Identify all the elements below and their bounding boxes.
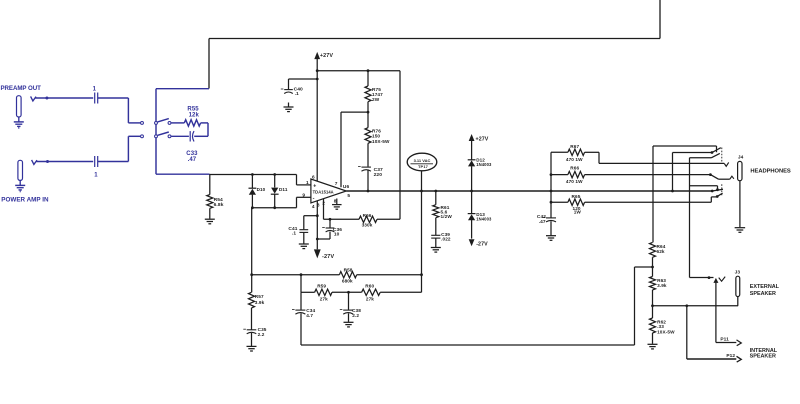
- label 3.9k (R63): [657, 283, 667, 288]
- wire C40 branch: [289, 79, 318, 89]
- svg-text:SPEAKER: SPEAKER: [750, 354, 776, 360]
- label -27V (left): [322, 254, 334, 260]
- ground under C42: [546, 221, 556, 240]
- label -27V (mid): [476, 242, 488, 248]
- wire C36 bottom to -27V rail: [317, 238, 330, 240]
- connector J1 preamp out jack: [17, 96, 22, 117]
- label D10: [257, 187, 266, 192]
- label POWER AMP IN: [1, 197, 49, 204]
- label pin 8: [334, 198, 337, 204]
- resistor R57: [249, 208, 255, 330]
- diode D10: [249, 175, 257, 208]
- svg-text:2W: 2W: [372, 97, 380, 102]
- svg-text:1N4003: 1N4003: [476, 162, 492, 167]
- node main line contact: [711, 190, 714, 193]
- wire R65 line: [551, 201, 711, 203]
- wire feedback branch left: [301, 267, 653, 345]
- svg-text:1: 1: [306, 180, 309, 186]
- node zobel R65 junction: [550, 201, 553, 204]
- switch arm 3: [712, 189, 723, 191]
- node R58 R59 junction: [300, 273, 303, 276]
- svg-text:6.8k: 6.8k: [214, 202, 224, 208]
- label TDA1514A: [313, 189, 334, 194]
- label J3: [735, 270, 741, 276]
- wire R58 line: [252, 274, 422, 276]
- svg-text:R58: R58: [344, 267, 353, 272]
- P12 arrow: [737, 356, 742, 362]
- power +27V arrow (left): [314, 52, 320, 182]
- label 10X-5W: [372, 139, 390, 144]
- ground under C39: [431, 238, 441, 252]
- wire lower input line: [251, 206, 297, 209]
- label pin 3: [317, 202, 320, 208]
- svg-text:10: 10: [334, 232, 340, 238]
- switch S2 arm: [158, 132, 169, 135]
- wire top feed from off-page: [209, 0, 660, 89]
- svg-text:P12: P12: [726, 353, 735, 359]
- power -27V arrow (left): [314, 249, 321, 258]
- jack link dashes lower: [721, 184, 723, 196]
- node zobel R66b junction: [550, 173, 553, 176]
- label 62k: [657, 249, 665, 254]
- label 6.8k: [214, 202, 224, 208]
- svg-text:R65: R65: [572, 194, 581, 199]
- node C36 junction: [329, 218, 332, 221]
- wire zobel vertical: [550, 152, 552, 217]
- wire feedback vertical: [421, 191, 423, 292]
- label D13: [476, 212, 485, 217]
- label C38: [352, 308, 361, 313]
- label C33: [186, 151, 198, 157]
- label P11: [720, 336, 729, 342]
- svg-text:3.11 VAC: 3.11 VAC: [414, 158, 431, 163]
- svg-text:R63: R63: [657, 278, 666, 283]
- svg-text:EXTERNAL: EXTERNAL: [750, 284, 780, 290]
- capacitor C41: [299, 230, 308, 233]
- wire P11 line: [716, 342, 736, 344]
- node rail junction C40 branch: [316, 78, 319, 81]
- resistor R60: [362, 289, 381, 295]
- node R59 C38 junction: [347, 291, 350, 294]
- power -27V arrow (mid): [469, 239, 475, 246]
- wire R66b line: [551, 174, 710, 176]
- label C34: [306, 308, 315, 313]
- label R66 (470): [570, 165, 579, 170]
- wire P12 line: [687, 306, 737, 359]
- svg-text:U6: U6: [343, 184, 350, 190]
- label 680k: [342, 279, 353, 284]
- ring arm J4: [710, 175, 718, 180]
- svg-text:.1: .1: [295, 91, 299, 97]
- label 4.7 (C34): [306, 313, 313, 318]
- resistor R63: [650, 267, 656, 306]
- resistor R65: [568, 199, 585, 205]
- wire J3 sleeve down: [737, 297, 739, 306]
- label 1W (R65): [574, 210, 582, 215]
- wire R64 top line: [653, 146, 717, 152]
- ground under J4: [735, 228, 746, 233]
- svg-text:9: 9: [302, 193, 305, 199]
- label P12: [726, 353, 735, 359]
- svg-text:680k: 680k: [342, 279, 353, 284]
- test point TP17 oval: [407, 153, 437, 191]
- svg-text:.33: .33: [657, 324, 664, 329]
- node tip contact dot 2: [46, 160, 49, 163]
- connector J4 headphone jack: [738, 161, 742, 180]
- capacitor C40: [281, 89, 293, 94]
- op-amp U6 TDA1514A triangle: [311, 179, 346, 203]
- resistor R59: [315, 289, 332, 295]
- label pin 6: [312, 174, 315, 180]
- wire blue box bottom edge: [156, 173, 210, 175]
- label R64: [657, 244, 666, 249]
- node output jack junction: [671, 190, 674, 193]
- label 1N4003 (D12): [476, 162, 492, 167]
- node tip contact dot: [45, 97, 48, 100]
- svg-text:.47: .47: [539, 219, 546, 225]
- label .1 (C40): [295, 91, 299, 97]
- label R76: [372, 129, 381, 134]
- label R63: [657, 278, 666, 283]
- label 5.6: [441, 210, 448, 215]
- svg-text:R59: R59: [317, 283, 326, 288]
- svg-text:+: +: [313, 184, 316, 190]
- label C39: [441, 232, 450, 237]
- svg-text:.47: .47: [188, 157, 197, 163]
- node output D12 junction: [470, 190, 473, 193]
- wire C30 to switch S1: [98, 98, 141, 123]
- label 3.11 VAC: [411, 158, 434, 164]
- svg-text:+27V: +27V: [476, 137, 489, 143]
- node lower contact b: [716, 188, 719, 191]
- svg-text:5: 5: [347, 193, 350, 199]
- svg-text:1: 1: [93, 86, 97, 92]
- svg-text:2.2: 2.2: [258, 332, 265, 337]
- ext speaker chevron: [719, 277, 726, 282]
- label pin 1: [306, 180, 309, 186]
- svg-text:D11: D11: [279, 187, 288, 192]
- resistor R76: [365, 112, 371, 166]
- svg-text:R66: R66: [570, 165, 579, 170]
- wire to pin 1: [297, 175, 312, 185]
- svg-text:D10: D10: [257, 187, 266, 192]
- label R62: [657, 319, 666, 324]
- label pin 5: [347, 193, 350, 199]
- switch S1 upper contacts: [141, 121, 171, 124]
- wire jack switch feed: [673, 153, 713, 192]
- wire switch S2 to C33: [171, 135, 189, 137]
- label 27k (R60): [366, 296, 374, 301]
- wire speaker feed lower: [690, 186, 718, 190]
- wire switch S1 to R55: [171, 122, 184, 124]
- label minus input: [313, 195, 315, 201]
- svg-text:TP17: TP17: [418, 164, 429, 169]
- label C37: [374, 167, 383, 173]
- tip chevron J4: [724, 162, 728, 166]
- wire preamp out to C30: [36, 97, 94, 99]
- switch arm 4: [717, 193, 722, 196]
- diode D13: [468, 191, 476, 239]
- ring chevron J4: [719, 176, 734, 179]
- svg-text:3.9k: 3.9k: [255, 300, 265, 305]
- label C36: [333, 227, 342, 233]
- node pin4 C36 junction: [316, 238, 319, 241]
- label .47: [188, 157, 197, 163]
- svg-text:27k: 27k: [366, 296, 374, 301]
- svg-text:3.9k: 3.9k: [657, 283, 667, 288]
- svg-text:220: 220: [374, 172, 383, 178]
- svg-text:27k: 27k: [320, 296, 328, 301]
- switch S2 lower contacts: [141, 135, 171, 138]
- svg-text:1W: 1W: [574, 210, 582, 215]
- label 1/2W: [441, 214, 453, 219]
- ground under C38: [344, 322, 354, 327]
- label TP17: [418, 164, 429, 169]
- label R75: [372, 87, 381, 92]
- wire R55 to right junction: [201, 123, 208, 136]
- svg-text:SPEAKER: SPEAKER: [750, 291, 776, 297]
- wire J4 sleeve to ground: [739, 181, 741, 227]
- resistor R54: [207, 175, 213, 219]
- P11 arrow: [737, 340, 742, 346]
- node R65 contact: [716, 195, 719, 198]
- ground under C40: [284, 103, 294, 112]
- resistor R64: [650, 146, 656, 267]
- svg-text:HEADPHONES: HEADPHONES: [750, 168, 791, 174]
- label 3.9k (R57): [255, 300, 265, 305]
- switch arm 1: [712, 148, 721, 153]
- label 2.2 (C35): [258, 332, 265, 337]
- capacitor C34: [292, 292, 305, 345]
- wire R59 R60 line: [301, 275, 422, 293]
- resistor R58: [339, 272, 356, 278]
- svg-text:6: 6: [312, 174, 315, 180]
- svg-text:4.7: 4.7: [306, 313, 313, 318]
- label J4: [738, 155, 744, 161]
- label R60: [365, 283, 374, 288]
- node ring contact: [709, 173, 712, 176]
- ground under R62: [648, 344, 658, 349]
- svg-text:.022: .022: [441, 237, 451, 242]
- label U6: [343, 184, 350, 190]
- jack tip chevron power amp in: [32, 160, 37, 165]
- node R75 R76 junction: [367, 111, 370, 114]
- wire pin 4 to -27V: [316, 201, 318, 250]
- switch arm 2: [712, 153, 720, 157]
- label .1 (C41): [292, 231, 296, 237]
- node R63 R62 junction: [651, 304, 654, 307]
- label pin 9: [302, 193, 305, 199]
- label 10 (C36): [334, 232, 340, 238]
- capacitor C39: [431, 235, 440, 238]
- svg-text:4: 4: [312, 204, 315, 210]
- label pin 7: [335, 181, 338, 187]
- label PREAMP OUT: [1, 85, 42, 92]
- wire R66 line: [324, 218, 401, 220]
- label pin 4: [312, 204, 315, 210]
- svg-text:1N4003: 1N4003: [476, 217, 492, 222]
- label R66 (330k): [363, 213, 372, 218]
- diode D12: [468, 160, 476, 191]
- label C40: [294, 86, 303, 92]
- label D12: [476, 157, 485, 162]
- label HEADPHONES: [750, 168, 791, 174]
- label .022: [441, 237, 451, 242]
- ground under R54: [205, 219, 215, 224]
- ground under C41: [299, 233, 309, 249]
- wire C33 to right junction: [194, 135, 208, 137]
- svg-text:J3: J3: [735, 270, 741, 276]
- svg-text:1: 1: [94, 173, 98, 179]
- capacitor C38: [340, 292, 353, 322]
- label 2W: [372, 97, 380, 102]
- wire C37 to output line: [367, 170, 369, 191]
- label D11: [279, 187, 288, 192]
- resistor R66 330k: [359, 216, 377, 222]
- label R54: [214, 197, 223, 203]
- label 330k: [362, 223, 373, 228]
- label 220: [374, 172, 383, 178]
- capacitor C36: [322, 219, 334, 239]
- label R61: [441, 205, 450, 210]
- wire power amp in to C31: [37, 161, 94, 163]
- label 1 (bottom cap value): [94, 173, 98, 179]
- svg-text:.1: .1: [292, 231, 296, 237]
- capacitor 1uF (top): [95, 93, 98, 104]
- svg-text:470 1W: 470 1W: [566, 157, 583, 162]
- wire C41 branch: [304, 216, 318, 230]
- connector J2 power amp in jack: [18, 160, 23, 180]
- node output R61 junction: [434, 190, 437, 193]
- label C41: [288, 226, 297, 232]
- node output TP junction: [420, 190, 423, 193]
- svg-text:7: 7: [335, 181, 338, 187]
- jack tip chevron preamp out: [31, 96, 36, 101]
- wire junction to pin 7: [341, 112, 368, 187]
- label 1N4003 (D13): [476, 217, 492, 222]
- node P12 junction: [685, 304, 688, 307]
- capacitor C42: [543, 217, 556, 222]
- svg-text:R60: R60: [365, 283, 374, 288]
- wire +27V to R75 top line: [317, 69, 400, 72]
- ground under C35: [247, 333, 257, 351]
- label R65: [572, 194, 581, 199]
- label R58: [344, 267, 353, 272]
- label R55: [187, 106, 199, 112]
- svg-text:10X-5W: 10X-5W: [372, 139, 390, 144]
- ground under preamp out jack: [14, 117, 24, 129]
- wire pin 2 to R66 line: [323, 199, 325, 220]
- node output zobel junction: [550, 190, 553, 193]
- label C42: [537, 214, 546, 220]
- svg-text:12k: 12k: [189, 112, 200, 118]
- label plus input: [313, 184, 316, 190]
- label R67: [570, 144, 579, 149]
- wire main input line: [210, 173, 297, 176]
- node output C37 junction: [367, 190, 370, 193]
- resistor R67: [568, 149, 585, 155]
- power +27V arrow (mid): [469, 134, 475, 160]
- wire R65 to switch: [711, 197, 717, 202]
- svg-text:62k: 62k: [657, 249, 665, 254]
- capacitor C33: [190, 131, 194, 141]
- label 1 (top cap value): [93, 86, 97, 92]
- jack link dashes upper: [721, 148, 723, 163]
- wire to pin 9: [297, 197, 312, 207]
- svg-text:P11: P11: [720, 336, 729, 342]
- capacitor 1uF (bottom): [95, 156, 98, 167]
- svg-text:2.2: 2.2: [352, 313, 359, 318]
- label 120 (R65): [573, 206, 581, 211]
- node pin4 C41 junction: [316, 214, 319, 217]
- svg-text:470 1W: 470 1W: [566, 179, 583, 184]
- switch S1 arm: [158, 119, 169, 122]
- label R59: [317, 283, 326, 288]
- ground under power amp in jack: [15, 180, 25, 192]
- label SPEAKER (int): [750, 354, 776, 360]
- svg-text:TDA1514A: TDA1514A: [313, 189, 334, 194]
- svg-text:330k: 330k: [362, 223, 373, 228]
- wire R67 branch: [551, 152, 724, 163]
- diode D11: [271, 175, 279, 208]
- wire right bootstrap loop: [399, 71, 401, 220]
- svg-text:R66: R66: [363, 213, 372, 218]
- label 1747: [372, 92, 383, 97]
- svg-text:-: -: [313, 195, 315, 201]
- svg-text:R57: R57: [255, 294, 264, 299]
- label .47 (C42): [539, 219, 546, 225]
- label +27V (mid): [476, 137, 489, 143]
- node R58 left junction: [250, 273, 253, 276]
- resistor R55: [184, 120, 200, 126]
- label R57: [255, 294, 264, 299]
- label 470 1W (R66): [566, 179, 583, 184]
- node ext speaker contact: [708, 276, 711, 279]
- resistor R75: [365, 71, 371, 112]
- wire speaker feed upper: [690, 158, 712, 278]
- ext speaker plug arrow: [713, 278, 718, 343]
- label SPEAKER (ext): [750, 291, 776, 297]
- node rail junction R75 branch: [316, 69, 319, 72]
- label pin 2: [322, 201, 325, 207]
- label INTERNAL: [750, 348, 778, 354]
- wire speaker junction line: [653, 305, 739, 307]
- svg-text:R67: R67: [570, 144, 579, 149]
- svg-text:-27V: -27V: [322, 254, 334, 260]
- connector J3 external speaker jack: [736, 276, 740, 296]
- resistor R66 470: [568, 171, 585, 177]
- pin 8 ground: [332, 199, 342, 210]
- wire C31 to switch S2: [98, 136, 141, 161]
- resistor R61: [433, 191, 439, 235]
- svg-text:-27V: -27V: [476, 242, 488, 248]
- label 27k (R59): [320, 296, 328, 301]
- label EXTERNAL: [750, 284, 780, 290]
- wire blue box top edge: [156, 88, 209, 90]
- label 150: [372, 134, 380, 139]
- label 2.2 (C38): [352, 313, 359, 318]
- svg-text:10X-5W: 10X-5W: [657, 329, 675, 334]
- svg-text:J4: J4: [738, 155, 744, 161]
- wire blue bus left edge: [155, 89, 157, 175]
- label +27V (left): [320, 53, 333, 59]
- label C35: [258, 327, 267, 332]
- svg-text:PREAMP OUT: PREAMP OUT: [1, 85, 42, 92]
- capacitor C37: [358, 167, 371, 172]
- label .33: [657, 324, 664, 329]
- label 10X-5W: [657, 329, 675, 334]
- svg-text:+27V: +27V: [320, 53, 333, 59]
